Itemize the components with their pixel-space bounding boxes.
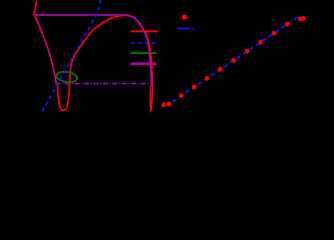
left plot: energy level line E2 green — [131, 52, 157, 54]
left plot: purple top horizontal trajectory curving down right wall — [34, 15, 151, 87]
left plot: purple dash-dot horizontal line — [55, 83, 150, 85]
left plot: energy level line E1 blue dashed — [131, 42, 157, 44]
left plot: red tip at very top — [34, 1, 37, 16]
left plot: red dashes overlapping steep descent — [35, 16, 56, 83]
left plot: energy level line E3 purple thick — [131, 62, 157, 65]
left plot: energy level line E0 red — [131, 30, 158, 32]
left plot: purple steep descending trajectory (top-left) — [35, 15, 57, 83]
right plot: blue dashed fit line — [166, 16, 299, 106]
legend: blue dashed handle — [177, 28, 194, 30]
legend: red marker — [182, 14, 187, 19]
left plot: red main trajectory U-dip, rise, asymptote, down right wall — [58, 15, 153, 111]
right plot: red data points — [161, 16, 305, 107]
left plot: blue dashed diverging trajectory — [42, 0, 100, 111]
left plot: red wall second strand — [149, 86, 151, 107]
left plot: green closed orbit (ellipse) — [56, 70, 78, 83]
